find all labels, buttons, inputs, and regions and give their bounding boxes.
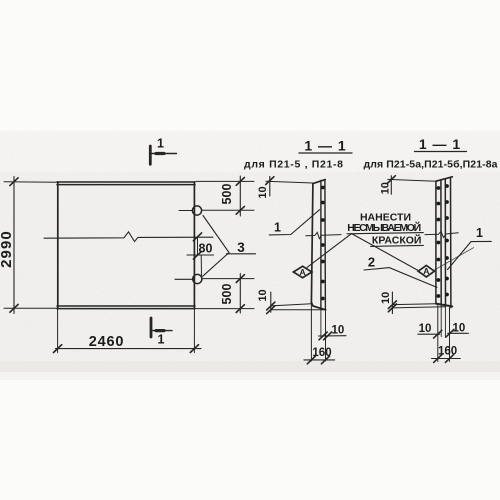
svg-text:10: 10 xyxy=(257,289,269,301)
section1 angle: bottom edge xyxy=(311,303,325,310)
section2 top edge xyxy=(436,177,452,181)
dimension 500 top: line and ticks xyxy=(239,176,241,216)
section1 title underline xyxy=(299,152,352,154)
panel bottom edge (double line) xyxy=(57,306,195,309)
section2 dimension 160 xyxy=(432,358,461,360)
anchor line of top loop xyxy=(179,210,192,212)
label 3 underline xyxy=(227,253,256,255)
label 2 underline and leader xyxy=(364,268,437,288)
svg-text:для П21-5 , П21-8: для П21-5 , П21-8 xyxy=(244,159,343,171)
extension line from top loop xyxy=(202,209,254,211)
section2 strip A lines xyxy=(436,180,441,305)
label 1 (right) underline and leader xyxy=(447,241,491,269)
svg-text:1: 1 xyxy=(157,137,164,151)
dimension 2460: line, ticks, extensions xyxy=(56,348,202,350)
svg-text:500: 500 xyxy=(220,184,234,205)
section1 angle: top edge xyxy=(313,180,325,184)
panel mid seam line with break mark xyxy=(44,232,213,242)
svg-text:10: 10 xyxy=(332,325,345,337)
svg-text:2: 2 xyxy=(368,255,375,270)
section1 angle: flange strip lines xyxy=(321,180,326,310)
lifting loop top (circle) xyxy=(192,206,201,215)
panel top edge (double line) xyxy=(57,182,195,185)
section2 bottom extension lines xyxy=(438,306,450,362)
section2 strip B lines xyxy=(445,178,451,308)
leader lines to label 3 xyxy=(203,216,229,277)
section2 break line xyxy=(425,232,458,238)
panel left edge xyxy=(57,182,59,309)
section2 top dimension 10 xyxy=(388,179,436,181)
section2 bottom edge xyxy=(436,304,452,307)
line from right diamond xyxy=(434,248,473,270)
section1 dimension 10 (thickness) xyxy=(319,335,347,337)
svg-text:1: 1 xyxy=(158,333,165,347)
section2 title underline xyxy=(415,151,467,153)
svg-text:10: 10 xyxy=(419,323,432,335)
svg-text:80: 80 xyxy=(199,242,213,256)
paint mark diamond A left xyxy=(293,266,311,277)
svg-text:10: 10 xyxy=(453,322,466,334)
section1 weld dots xyxy=(321,186,325,301)
panel right edge xyxy=(193,182,195,309)
svg-text:2990: 2990 xyxy=(0,230,15,268)
section1 dimension 160 xyxy=(304,359,335,361)
section2 dimension 10 right xyxy=(448,332,469,334)
anchor line of bottom loop xyxy=(175,278,193,280)
section1 angle: left face line xyxy=(311,184,313,303)
svg-text:1 — 1: 1 — 1 xyxy=(304,138,346,154)
section1 bottom-left dimension 10 xyxy=(271,304,326,310)
extension line bottom right xyxy=(196,308,254,310)
section2 weld dots xyxy=(437,184,449,298)
note leader to left diamond xyxy=(307,234,352,268)
section mark bottom (cut line 1) xyxy=(150,318,153,337)
svg-text:2460: 2460 xyxy=(89,334,124,350)
section1 top dimension 10 xyxy=(266,181,313,183)
svg-text:1: 1 xyxy=(274,221,281,235)
svg-text:160: 160 xyxy=(312,347,331,359)
svg-text:1 — 1: 1 — 1 xyxy=(419,136,461,152)
svg-text:500: 500 xyxy=(220,284,234,305)
section1 leader label 1 xyxy=(269,210,319,235)
lifting loop bottom (circle) xyxy=(193,274,202,283)
extension line from bottom loop xyxy=(202,278,254,280)
note leader to right diamond xyxy=(352,234,419,271)
paint mark diamond A right xyxy=(418,265,434,277)
svg-text:160: 160 xyxy=(438,346,457,358)
svg-text:А: А xyxy=(300,267,306,277)
svg-text:1: 1 xyxy=(476,226,483,240)
dimension 500 bottom: line and ticks xyxy=(239,274,241,314)
svg-text:10: 10 xyxy=(257,186,269,198)
dimension 2990: line, ticks, extensions xyxy=(13,177,15,314)
svg-text:для П21-5а,П21-5б,П21-8а: для П21-5а,П21-5б,П21-8а xyxy=(364,158,498,170)
note underlines xyxy=(347,233,423,247)
section mark top (cut line 1) xyxy=(149,146,152,164)
svg-text:КРАСКОЙ: КРАСКОЙ xyxy=(372,234,422,247)
section1 break line xyxy=(306,232,341,238)
svg-text:10: 10 xyxy=(380,292,392,304)
section2 bottom-left dimension 10 xyxy=(392,304,445,308)
svg-text:10: 10 xyxy=(379,182,391,194)
extension line top right xyxy=(196,180,254,182)
svg-text:НЕСМЫВАЕМОЙ: НЕСМЫВАЕМОЙ xyxy=(347,221,421,234)
svg-text:3: 3 xyxy=(237,240,245,255)
section2 dimension 10 left xyxy=(418,333,440,335)
section1 bottom extension lines xyxy=(311,304,325,362)
svg-text:А: А xyxy=(423,266,429,276)
dimension 80: extension, line and ticks xyxy=(187,254,214,256)
